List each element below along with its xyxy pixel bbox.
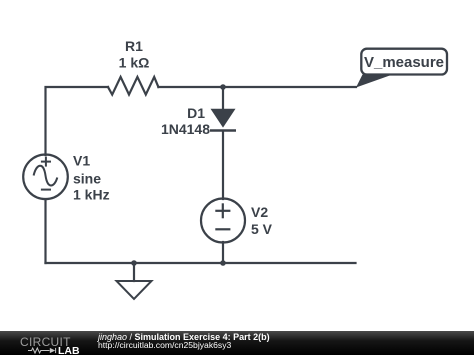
svg-text:1 kHz: 1 kHz — [73, 186, 110, 202]
svg-text:LAB: LAB — [58, 345, 80, 355]
wire bottom rail — [46, 262, 356, 264]
ground stub wire — [133, 263, 135, 281]
wire V1 bottom to bottom rail — [44, 199, 46, 263]
svg-text:V1: V1 — [73, 152, 90, 168]
svg-text:1 kΩ: 1 kΩ — [119, 54, 150, 70]
footer bar — [0, 331, 474, 355]
flag V_measure — [356, 49, 447, 88]
wire node A to flag V_measure — [223, 86, 356, 88]
svg-text:1N4148: 1N4148 — [161, 121, 210, 137]
svg-text:V2: V2 — [251, 204, 268, 220]
svg-text:5 V: 5 V — [251, 221, 273, 237]
resistor R1 labels — [119, 38, 150, 71]
diode D1 — [210, 109, 236, 131]
svg-text:D1: D1 — [187, 105, 205, 121]
wire V2 minus terminal to bottom node B — [222, 242, 224, 263]
credit text — [98, 333, 270, 349]
voltage source V1 (sine) — [23, 155, 68, 200]
ground symbol — [117, 281, 152, 299]
V1 labels — [73, 152, 110, 202]
CircuitLab logo — [20, 332, 98, 354]
wire diode D1 cathode to V2 plus terminal — [222, 131, 224, 199]
V2 labels — [251, 204, 273, 237]
wire node A down to diode D1 anode — [222, 87, 224, 110]
node B junction dot (V2 to rail) — [220, 260, 226, 266]
svg-text:sine: sine — [73, 171, 101, 187]
wire V1 top to resistor R1 left lead — [46, 87, 109, 155]
svg-text:V_measure: V_measure — [364, 54, 444, 71]
ground junction dot — [131, 260, 137, 266]
D1 labels — [161, 105, 210, 137]
voltage source V2 (DC) — [201, 199, 245, 243]
svg-text:R1: R1 — [125, 38, 143, 54]
wire resistor R1 to node A — [158, 86, 223, 88]
node A junction dot — [220, 84, 226, 90]
resistor R1 — [108, 77, 158, 95]
